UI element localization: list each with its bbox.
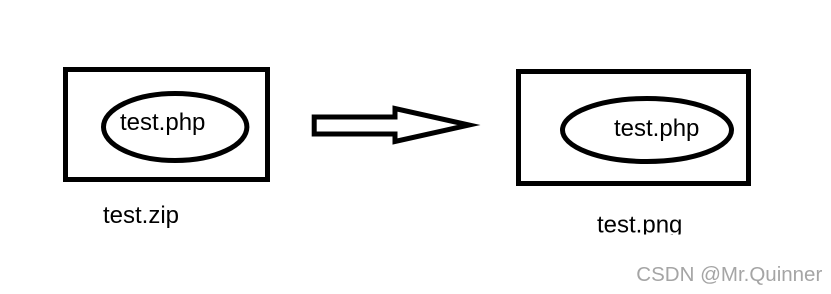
right ellipse xyxy=(563,99,732,162)
arrow xyxy=(314,109,469,142)
svg-text:test.png: test.png xyxy=(597,212,682,239)
svg-text:test.php: test.php xyxy=(120,109,205,136)
svg-text:CSDN @Mr.Quinner: CSDN @Mr.Quinner xyxy=(636,263,822,286)
left ellipse xyxy=(104,94,247,161)
svg-text:test.php: test.php xyxy=(614,115,699,142)
white mask clipping test.png descenders xyxy=(590,235,700,253)
left rectangle (zip container) xyxy=(66,70,268,180)
right rectangle (png container) xyxy=(519,72,749,184)
svg-text:test.zip: test.zip xyxy=(103,202,179,229)
